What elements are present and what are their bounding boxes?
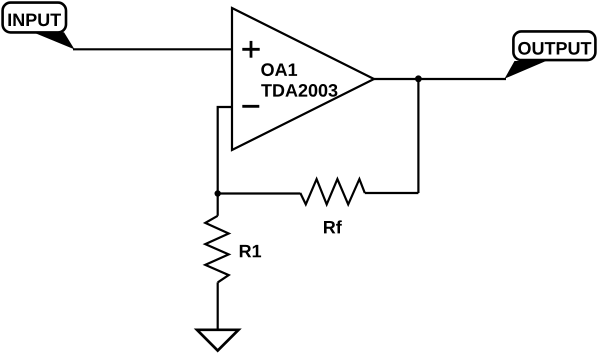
wire: Rf right lead corner segment bbox=[365, 192, 419, 194]
op-amp name label OA1 bbox=[261, 63, 297, 76]
node OUTPUT flag tail bbox=[505, 61, 547, 79]
resistor Rf zigzag bbox=[300, 179, 365, 204]
wire: feedback node to Rf left lead bbox=[218, 192, 301, 194]
op-amp value label TDA2003 bbox=[261, 84, 337, 97]
node INPUT flag box bbox=[3, 3, 66, 33]
resistor R1 zigzag bbox=[205, 216, 228, 283]
op-amp plus (non-inverting) symbol bbox=[242, 48, 259, 51]
wire: inverting input stub down to feedback node bbox=[218, 107, 232, 194]
node INPUT flag tail bbox=[33, 32, 75, 49]
node INPUT label bbox=[8, 14, 61, 27]
junction dot at feedback node bbox=[215, 190, 221, 196]
wire: output node down to feedback resistor bbox=[417, 79, 419, 193]
resistor Rf label bbox=[324, 220, 342, 233]
resistor R1 label bbox=[240, 245, 261, 257]
wire: op-amp output to OUTPUT flag bbox=[374, 78, 506, 80]
op-amp OA1 triangle body bbox=[232, 8, 374, 150]
junction dot at output node bbox=[415, 75, 422, 82]
op-amp minus (inverting) symbol bbox=[242, 105, 259, 108]
wire: feedback node down to R1 bbox=[217, 194, 219, 216]
ground symbol bbox=[197, 330, 239, 351]
node OUTPUT flag box bbox=[513, 31, 595, 60]
node OUTPUT label bbox=[518, 42, 591, 55]
wire: INPUT flag to op-amp non-inverting input bbox=[73, 48, 232, 50]
wire: R1 to ground bbox=[217, 282, 219, 330]
